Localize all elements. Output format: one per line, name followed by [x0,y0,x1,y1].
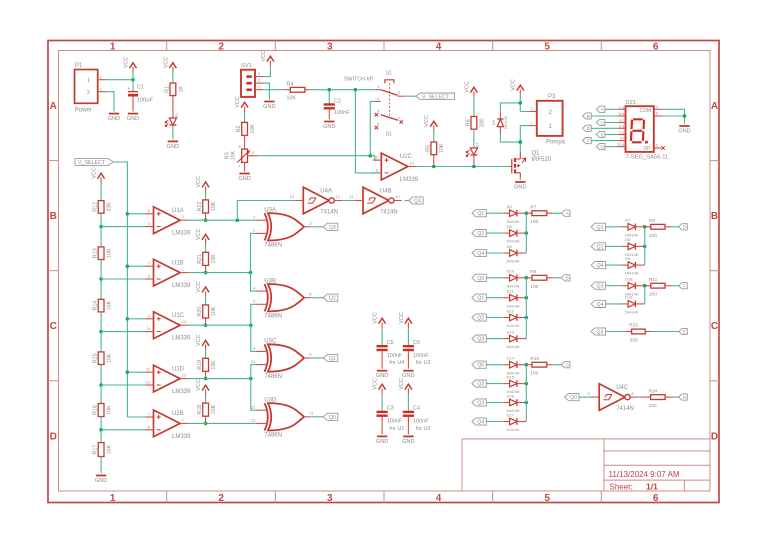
wire cathode bus vertical [525,278,527,339]
wire SV1 pin top to VCC [264,66,271,77]
net flag Q1 [323,354,337,362]
svg-text:LM339: LM339 [172,336,191,342]
svg-text:Power: Power [75,107,92,113]
svg-text:Q3: Q3 [477,401,484,407]
wire VCC to R21 [205,244,207,252]
diode D11 1N4148 [506,289,519,309]
supply VCC at R21 [196,228,209,244]
svg-text:7414N: 7414N [320,210,338,216]
net flag Q0 (to D10) [472,274,486,282]
wire D4 cathode to bus [517,212,526,214]
svg-text:A: A [50,101,57,112]
junction R19 output node [204,377,208,381]
wire Q3 flag to D13 [486,338,503,340]
op-amp U1A LM339 [145,207,191,237]
wire C flag to display pin [605,122,618,124]
capacitor C5 100nF for U4 [377,340,405,366]
svg-text:D21: D21 [626,100,637,106]
svg-text:C3: C3 [387,406,394,412]
diode D3 1N4148 [491,111,508,134]
net flag Q1 (to D4) [472,210,486,218]
resistor R22 10K [197,200,217,213]
svg-text:100nF: 100nF [413,419,429,425]
svg-text:VCC: VCC [196,334,202,346]
net flag A [561,210,570,217]
svg-text:14: 14 [182,319,187,324]
svg-text:100nF: 100nF [387,353,403,359]
svg-text:4: 4 [436,41,442,52]
wire R19 to output [205,371,207,378]
svg-text:R22: R22 [197,201,203,211]
svg-text:U2B: U2B [172,411,184,417]
svg-text:U3D: U3D [264,398,277,404]
svg-text:C6: C6 [413,340,420,346]
wire U3B output to Q2 flag [310,297,323,299]
op-amp U2C LM339 [373,153,419,183]
svg-text:10K: 10K [211,201,217,211]
wire R21 to output [205,265,207,272]
capacitor C1 100uF [127,80,153,112]
net flag Q3 [323,223,337,231]
svg-text:U1D: U1D [172,366,185,372]
svg-text:10K: 10K [211,360,217,370]
wire VCC to R2 [244,112,246,122]
svg-text:Q0: Q0 [477,276,484,282]
wire R22 to output [205,213,207,220]
display D21 7-SEG_SA56-11 [626,100,669,160]
svg-text:D11: D11 [507,289,515,294]
wire ladder segment below R13 [100,260,102,280]
svg-text:D: D [683,225,687,231]
net flag B [583,113,592,120]
svg-text:Q2: Q2 [477,316,484,322]
connector P3 Pompa [529,94,565,146]
svg-text:R17: R17 [93,445,99,455]
junction P1/C1/VCC [131,78,135,82]
junction bus at D7 [643,225,647,229]
svg-text:10K: 10K [211,404,217,414]
svg-text:D14: D14 [507,356,515,361]
resistor R7 100 [526,204,553,225]
svg-text:100nF: 100nF [334,110,350,116]
junction bus at D4 [525,211,529,215]
svg-text:R19: R19 [197,360,203,370]
wire P1 pin1 to VCC/C1 node [106,79,133,81]
wire ladder node 1 to comparator - input [101,226,145,228]
svg-text:R5: R5 [425,145,431,152]
svg-text:U3C: U3C [264,339,277,345]
junction bus at D15 [525,382,529,386]
wire VCC to R20 [205,297,207,305]
resistor R23 330 [625,323,651,344]
resistor R16 10K [93,404,113,417]
op-amp U1B LM339 [145,259,191,289]
svg-text:1N4148: 1N4148 [506,428,519,432]
svg-text:Q0: Q0 [570,395,577,401]
junction bus at D12 [525,316,529,320]
svg-text:DP: DP [644,146,652,152]
display pin 5 DP unconnected [654,143,665,150]
ground below R17 [95,476,107,485]
junction R20 output node [204,323,208,327]
net flag E [679,328,688,335]
svg-text:V_SELECT: V_SELECT [78,160,106,166]
svg-text:D3: D3 [491,119,496,125]
svg-text:B: B [50,211,57,222]
wire C6 to ground [407,351,409,368]
wire D10 cathode to bus [517,277,526,279]
ground below C1 [127,114,139,123]
resistor R18 10K [197,403,217,416]
svg-text:10K: 10K [211,254,217,264]
junction R3 wiper / S1 pin2 [369,154,373,158]
svg-text:Q3: Q3 [597,284,604,290]
wire U4B output to Q4 flag [405,200,409,202]
svg-text:V_SELECT: V_SELECT [422,95,450,101]
svg-text:100nF: 100nF [413,353,429,359]
capacitor C2 100nF [324,90,351,120]
net flag F [583,138,592,145]
svg-text:14: 14 [410,160,415,165]
ground below D1 [167,141,179,150]
supply VCC at ladder [92,167,105,183]
svg-text:GND: GND [514,185,526,191]
svg-text:330: 330 [630,338,638,344]
wire Q4 flag to D19 [606,303,622,305]
svg-text:Q1: Q1 [477,211,484,217]
diode D4 1N4148 [506,204,519,224]
svg-text:Q1: Q1 [532,151,541,157]
wire VCC to R6 [473,97,475,117]
wire E flag to display pin [605,134,618,136]
wire P3 pin1 to Q1 drain [520,126,529,152]
net flag Q2 [323,294,337,302]
svg-text:100: 100 [530,284,538,290]
capacitor C4 100nF for U2 [403,406,431,432]
wire D9 cathode to bus [635,264,644,266]
svg-text:LM339: LM339 [172,434,191,440]
wire G flag to display pin [605,146,618,148]
wire D16 cathode to bus [517,402,526,404]
diode D5 1N4148 [506,224,519,244]
svg-text:1/1: 1/1 [646,481,658,491]
supply VCC at R19 [196,334,209,350]
svg-text:100: 100 [649,233,657,239]
svg-text:R23: R23 [629,323,638,329]
svg-text:6: 6 [653,493,659,504]
svg-text:10 g: 10 g [617,143,624,147]
inverter U4C 7414N [588,384,638,412]
svg-text:VCC: VCC [196,228,202,240]
svg-text:GND: GND [238,176,250,182]
svg-text:Q2: Q2 [477,382,484,388]
svg-text:Q4: Q4 [477,251,484,257]
supply VCC at R20 [196,281,209,297]
wire D14 cathode to bus [517,364,526,366]
trimmer R3 10K [224,144,258,171]
wire R9 to B flag [553,277,561,279]
ground below C6 [402,371,414,380]
svg-text:D1: D1 [175,113,179,118]
svg-text:330: 330 [649,403,657,409]
svg-text:1N4148: 1N4148 [506,260,519,264]
frame outer border [48,41,719,503]
XOR gate U3C 7486N [251,339,312,380]
junction VCC/D3 [519,101,523,105]
ground below R3 [238,174,250,183]
junction bus at D10 [525,276,529,280]
wire VCC to C5 [381,328,383,345]
resistor R20 10K [197,305,217,318]
supply VCC at R5 [424,115,437,131]
svg-text:P3: P3 [548,94,556,100]
wire V_SELECT to U1C + input [127,318,145,320]
svg-text:E: E [683,329,686,335]
net flag Q3 (to D13) [472,335,486,343]
resistor R2 10K [236,122,256,135]
diode D15 1N4148 [506,374,519,394]
wire Q3 flag to D16 [486,402,503,404]
wire VCC to R5 [433,131,435,142]
svg-text:100: 100 [530,371,538,377]
junction V_SELECT branch U1A [126,212,130,216]
svg-text:100: 100 [530,219,538,225]
svg-text:10: 10 [146,380,151,385]
net flag Q4 (to D19) [591,300,605,308]
net flag V_SELECT (source) [75,159,114,167]
svg-text:10K: 10K [287,96,297,102]
wire D2 to output node [473,156,475,167]
wire Q1 flag to D7 [606,226,622,228]
svg-text:2: 2 [87,90,90,96]
resistor R13 10K [93,247,113,260]
junction ladder node 3 [99,330,103,334]
svg-text:R4: R4 [287,81,294,87]
svg-text:R13: R13 [93,248,99,258]
wire Q2 flag to D8 [606,245,622,247]
svg-text:330: 330 [479,118,485,127]
net flag D [679,224,688,231]
net flag Q2 (to D8) [591,243,605,251]
capacitor C6 100nF for U3 [403,340,431,366]
svg-text:Q0: Q0 [329,415,336,421]
wire cathode bus vertical [525,365,527,422]
net flag D [583,125,592,132]
svg-text:C: C [600,120,604,126]
net flag Q2 (to D5) [472,230,486,238]
wire R2 to R3 [244,135,246,149]
wire D flag to display pin [591,127,618,129]
wire U2B output to U3D input 13 [189,422,256,424]
svg-text:10: 10 [395,194,400,199]
svg-text:VCC: VCC [464,81,470,93]
junction C2 node [328,88,332,92]
resistor R21 10K [197,252,217,265]
wire ladder node 2 to comparator - input [101,278,145,280]
svg-text:GND: GND [402,439,414,445]
svg-text:for U1: for U1 [389,426,404,432]
wire U1A output to U3A input 1 [189,219,256,221]
junction R18 output node [204,422,208,426]
svg-text:U1C: U1C [172,313,185,319]
svg-text:7-SEG_SA56-11: 7-SEG_SA56-11 [626,154,669,160]
wire P1 pin2 to ground [106,92,114,112]
svg-text:R12: R12 [93,202,99,212]
resistor R1 1K [165,83,185,96]
svg-text:7486N: 7486N [264,374,282,380]
junction V_SELECT branch U1B [126,264,130,268]
svg-text:1: 1 [110,41,116,52]
svg-text:B: B [587,114,590,120]
svg-text:100uF: 100uF [137,98,154,104]
ground at display [678,126,690,135]
svg-text:VCC: VCC [373,378,379,390]
supply VCC at C1 [132,73,134,80]
wire Q4 flag to D17 [486,421,503,423]
wire U2C output to Q1 gate [417,166,510,168]
ground at SV1 [263,102,275,111]
wire D1 to ground [172,126,174,140]
resistor R14 10K [93,299,113,312]
junction R22 output node [204,218,208,222]
junction ladder node 2 [99,277,103,281]
wire Q2 flag to D12 [486,317,503,319]
svg-text:VCC: VCC [196,281,202,293]
ground below C4 [402,436,414,445]
svg-text:+: + [127,86,130,92]
wire C3 to ground [381,417,383,434]
svg-text:33K: 33K [107,202,113,212]
svg-text:1 e: 1 e [619,131,624,135]
ground at P1 pin2 [108,114,120,123]
svg-text:VCC: VCC [235,96,241,108]
supply VCC at C6 [399,312,412,328]
svg-text:10K: 10K [230,151,236,161]
diode D13 1N4148 [506,329,519,349]
XOR gate U3B 7486N [253,278,312,319]
svg-text:100: 100 [649,292,657,298]
wire ladder segment below R16 [100,417,102,430]
junction U2C feedback node [354,88,358,92]
svg-text:U1A: U1A [172,208,184,214]
wire V_SELECT to U1A + input [127,213,145,215]
svg-text:10K: 10K [107,405,113,415]
wire Q4 flag to D6 [486,252,503,254]
svg-text:2: 2 [218,41,224,52]
wire D5 cathode to bus [517,232,526,234]
svg-text:1N4148: 1N4148 [625,272,638,276]
svg-text:7486N: 7486N [264,433,282,439]
wire Q4 flag to D9 [606,264,622,266]
wire D17 cathode to bus [517,421,526,423]
svg-text:S1: S1 [386,132,393,138]
svg-text:D: D [587,126,591,132]
junction bus at D16 [525,401,529,405]
diode D12 1N4148 [506,308,519,328]
svg-text:10K: 10K [107,353,113,363]
svg-text:R8: R8 [649,218,655,224]
junction bus at D11 [525,296,529,300]
wire D3 anode to pump node [500,134,520,142]
svg-text:for U3: for U3 [416,360,431,366]
diode D14 1N4148 [506,356,519,376]
svg-text:R1: R1 [165,86,171,93]
wire ladder segment below R15 [100,365,102,386]
svg-text:R6: R6 [466,119,472,126]
junction U1C output / XOR vertical [249,323,253,327]
svg-text:D8: D8 [625,237,631,242]
svg-text:D16: D16 [507,393,515,398]
junction D2 output node [472,165,476,169]
title block sheet [610,481,659,491]
svg-text:4 c: 4 c [619,119,624,123]
svg-text:R10: R10 [530,356,539,362]
svg-text:SWITCH-6P: SWITCH-6P [344,77,374,83]
svg-text:SV1: SV1 [241,63,252,69]
ground below C2 [323,122,335,131]
net flag Q2 (to D12) [472,314,486,322]
wire cathode bus vertical [525,213,527,253]
svg-text:GND: GND [376,439,388,445]
net flag Q3 (to R23) [591,328,605,336]
ground below C5 [376,371,388,380]
wire VCC to P3 pin2 [520,95,529,112]
svg-text:LM339: LM339 [172,283,191,289]
wire junction to U2C + pin [370,156,381,160]
net flag Q3 (to D16) [472,399,486,407]
svg-text:13: 13 [289,194,294,199]
svg-text:for U4: for U4 [389,360,404,366]
svg-text:D13: D13 [507,329,515,334]
diode D7 1N4148 [625,218,638,238]
svg-text:VCC: VCC [399,312,405,324]
frame row letters [50,101,719,442]
svg-text:VCC: VCC [511,79,517,91]
svg-text:R14: R14 [93,301,99,311]
wire VCC to R22 [205,192,207,200]
wire R1 to D1 [172,96,174,118]
resistor R15 10K [93,352,113,365]
svg-text:R11: R11 [649,277,658,283]
wire Q2 flag to D5 [486,232,503,234]
supply VCC at R2 [235,96,248,112]
svg-text:A: A [711,101,718,112]
wire R10 to C flag [553,364,561,366]
wire V_SELECT to U1D + input [127,371,145,373]
svg-text:D4: D4 [507,204,513,209]
wire Q1 source to ground [519,178,521,180]
svg-text:B: B [711,211,718,222]
wire C4 to ground [407,417,409,434]
svg-text:11/13/2024 9:07 AM: 11/13/2024 9:07 AM [609,470,680,479]
wire D19 cathode to bus [635,303,644,305]
wire D6 cathode to bus [517,252,526,254]
svg-text:100nF: 100nF [387,419,403,425]
svg-text:10K: 10K [107,300,113,310]
diode D6 1N4148 [506,244,519,264]
svg-text:LM339: LM339 [172,389,191,395]
wire U4C output to R24 [638,396,640,398]
svg-text:D18: D18 [625,277,633,282]
svg-text:6: 6 [653,41,659,52]
diode D9 1N4148 [625,256,638,276]
net flag Q1 (to D7) [591,223,605,231]
svg-text:C4: C4 [413,406,420,412]
svg-text:12: 12 [336,194,341,199]
transistor Q1 IRF520 [510,151,552,178]
wire VCC to C4 [407,394,409,411]
wire S1 pin3 to V_SELECT flag [405,95,416,97]
